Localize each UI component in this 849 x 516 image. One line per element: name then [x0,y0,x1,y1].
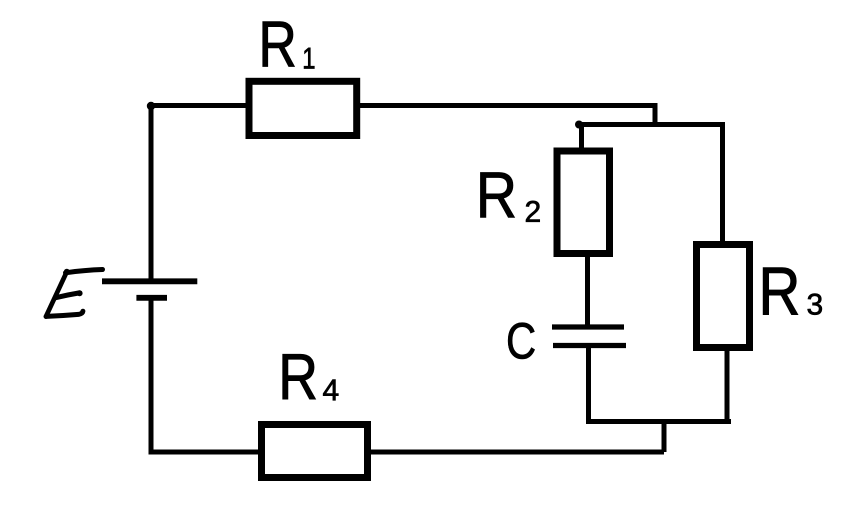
label E stroke-end blobs [64,269,70,275]
wire: stub from upper rail down to R2 top [579,122,584,150]
node A top-left corner dot [147,102,155,110]
resistor R4 body [262,425,368,478]
label E (hand-drawn script) [46,270,103,317]
wire: vertical drop from top wire to parallel-branch rail [653,106,658,128]
wire: vertical drop from lower rail to bottom wire [662,422,667,453]
label R2 [480,173,514,218]
wire: stub from R2 bottom down to capacitor C top plate [585,255,590,327]
label R2 subscript 2 [526,201,540,222]
label R1 subscript 1 [304,48,314,69]
label R4 subscript 4 [323,380,338,401]
resistor R3 body [697,245,750,348]
label R3 subscript 3 [808,294,822,315]
capacitor C top plate [552,324,624,329]
label R3 [763,268,798,315]
capacitor C bottom plate [553,343,626,348]
wire: left vertical lower (battery - to bottom wire) [149,298,154,455]
wire: vertical from upper rail down to R3 top [720,122,725,244]
wire: upper rail of parallel section [579,122,726,127]
label C [508,323,534,359]
wire: lower rail of parallel section [586,419,731,424]
resistor R2 body [557,151,610,254]
battery E long plate (positive) [102,278,197,284]
label R4 [283,354,316,399]
resistor R1 body [249,81,357,135]
wire: bottom horizontal [149,450,665,455]
wire: R1 right to top-right corner [356,103,658,108]
node B junction dot at left end of upper rail [575,121,583,129]
battery E short plate (negative) [136,295,167,301]
wire: stub from R3 bottom down to lower rail [725,349,730,424]
label R1 [263,22,295,67]
wire: left vertical upper (corner to battery +) [149,103,154,281]
wire: top-left horizontal from battery corner to R1 [149,103,251,108]
wire: stub from capacitor C bottom plate down to lower rail [586,346,591,425]
